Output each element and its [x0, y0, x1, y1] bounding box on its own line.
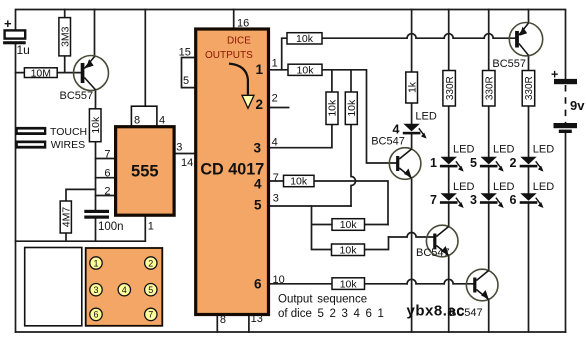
svg-text:+: + [4, 16, 12, 31]
svg-text:16: 16 [237, 18, 249, 30]
svg-text:330R: 330R [445, 76, 456, 100]
svg-text:2: 2 [104, 186, 110, 198]
svg-text:2: 2 [148, 258, 153, 268]
svg-text:Output sequence: Output sequence [278, 294, 367, 306]
svg-text:7: 7 [430, 193, 437, 207]
svg-text:LED: LED [453, 181, 474, 193]
svg-text:BC557: BC557 [60, 90, 94, 102]
svg-text:10k: 10k [340, 245, 358, 257]
svg-text:14: 14 [181, 157, 193, 169]
svg-text:2: 2 [272, 93, 278, 105]
svg-text:3: 3 [470, 193, 477, 207]
svg-text:5: 5 [254, 198, 262, 213]
svg-text:2: 2 [255, 97, 263, 112]
svg-text:1: 1 [430, 156, 437, 170]
svg-text:10k: 10k [327, 99, 339, 117]
svg-text:4: 4 [393, 123, 400, 137]
svg-text:330R: 330R [484, 76, 495, 100]
svg-text:555: 555 [131, 163, 159, 181]
svg-text:10k: 10k [346, 99, 358, 117]
svg-text:6: 6 [93, 310, 98, 320]
svg-text:6: 6 [254, 277, 262, 292]
svg-text:LED: LED [533, 181, 554, 193]
svg-text:6: 6 [510, 193, 517, 207]
svg-text:9v: 9v [570, 98, 585, 113]
svg-text:4: 4 [272, 137, 278, 149]
svg-text:330R: 330R [524, 76, 535, 100]
svg-text:5: 5 [183, 75, 189, 87]
svg-text:10k: 10k [340, 219, 358, 231]
svg-text:2: 2 [510, 156, 517, 170]
svg-text:ybx8.ac: ybx8.ac [407, 303, 466, 320]
svg-text:LED: LED [493, 181, 514, 193]
svg-text:BC547: BC547 [371, 136, 405, 148]
svg-text:1: 1 [148, 221, 154, 233]
svg-text:6: 6 [104, 168, 110, 180]
svg-text:1: 1 [272, 58, 278, 70]
svg-text:DICE: DICE [227, 36, 251, 47]
svg-text:10k: 10k [340, 278, 358, 290]
svg-text:8: 8 [134, 115, 140, 127]
svg-text:1: 1 [93, 258, 98, 268]
svg-text:OUTPUTS: OUTPUTS [205, 50, 253, 61]
svg-text:4M7: 4M7 [61, 207, 73, 228]
svg-text:5: 5 [148, 285, 153, 295]
svg-text:7: 7 [104, 149, 110, 161]
svg-text:1: 1 [255, 62, 263, 77]
svg-text:+: + [551, 68, 558, 82]
svg-text:3: 3 [176, 142, 182, 154]
svg-text:10k: 10k [296, 33, 314, 45]
svg-text:10k: 10k [290, 176, 308, 188]
svg-text:3: 3 [253, 141, 261, 156]
svg-text:1u: 1u [17, 43, 30, 57]
svg-text:3: 3 [273, 193, 279, 205]
svg-text:4: 4 [254, 177, 262, 192]
svg-text:7: 7 [148, 310, 153, 320]
svg-text:10k: 10k [90, 116, 102, 134]
svg-text:LED: LED [415, 111, 436, 123]
svg-text:LED: LED [493, 144, 514, 156]
svg-text:100n: 100n [98, 221, 124, 233]
svg-text:LED: LED [453, 144, 474, 156]
svg-text:4: 4 [122, 285, 127, 295]
svg-text:10k: 10k [297, 64, 315, 76]
svg-text:BC547: BC547 [416, 247, 450, 259]
svg-text:10M: 10M [31, 67, 51, 79]
svg-text:BC557: BC557 [492, 58, 526, 70]
svg-text:7: 7 [273, 172, 279, 184]
svg-text:5: 5 [470, 156, 477, 170]
svg-text:LED: LED [533, 144, 554, 156]
svg-text:3: 3 [93, 285, 98, 295]
svg-text:of dice: of dice [278, 308, 312, 320]
svg-text:1k: 1k [406, 81, 418, 93]
svg-text:13: 13 [251, 313, 263, 325]
svg-text:4: 4 [159, 115, 165, 127]
svg-text:WIRES: WIRES [51, 139, 85, 151]
svg-text:10: 10 [273, 274, 285, 286]
svg-text:8: 8 [220, 314, 226, 326]
svg-text:5 2 3 4 6 1: 5 2 3 4 6 1 [318, 308, 386, 320]
svg-text:TOUCH: TOUCH [50, 126, 87, 138]
svg-text:15: 15 [179, 47, 191, 59]
svg-text:3M3: 3M3 [59, 26, 71, 47]
